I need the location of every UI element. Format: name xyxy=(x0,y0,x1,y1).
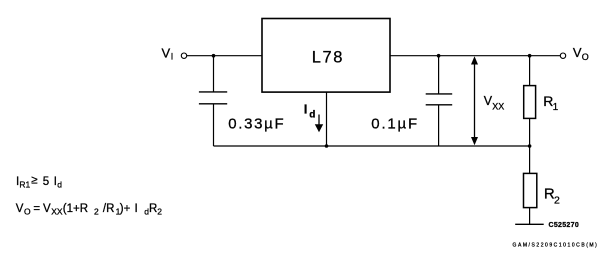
svg-text:2: 2 xyxy=(94,207,99,217)
label VXX xyxy=(484,94,505,112)
node output junction C2 xyxy=(437,54,441,58)
formula VO xyxy=(16,203,163,217)
label VO xyxy=(573,45,589,62)
terminal VI xyxy=(181,53,186,58)
svg-text:=: = xyxy=(33,203,40,215)
node bottom R junction xyxy=(528,144,532,148)
label VI xyxy=(162,45,174,61)
arrow Id xyxy=(315,115,323,133)
node input junction xyxy=(212,54,216,58)
svg-text:5: 5 xyxy=(43,176,49,188)
svg-text:R: R xyxy=(149,203,157,215)
svg-text:(1+R: (1+R xyxy=(63,203,88,215)
svg-text:/R: /R xyxy=(103,203,115,215)
capacitor C2 0.1uF xyxy=(426,56,453,146)
svg-text:V: V xyxy=(573,45,582,60)
svg-text:V: V xyxy=(16,203,24,215)
svg-text:0.1µF: 0.1µF xyxy=(371,115,419,132)
ground xyxy=(515,223,544,225)
svg-text:XX: XX xyxy=(492,102,504,112)
node R1 top junction xyxy=(528,54,532,58)
wire bottom xyxy=(214,145,530,147)
svg-text:C525270: C525270 xyxy=(549,222,580,229)
label R1 xyxy=(543,93,558,113)
wire output xyxy=(390,55,560,57)
wire regulator ground xyxy=(326,92,328,146)
svg-text:d: d xyxy=(309,109,315,120)
svg-text:0.33µF: 0.33µF xyxy=(228,115,285,132)
terminal VO xyxy=(560,53,565,58)
label R2 xyxy=(544,186,560,207)
svg-text:1: 1 xyxy=(553,102,559,113)
resistor R2 xyxy=(524,146,537,224)
svg-text:V: V xyxy=(162,45,171,60)
node bottom regulator junction xyxy=(325,144,329,148)
svg-text:O: O xyxy=(582,52,589,62)
watermark xyxy=(513,243,599,249)
svg-text:L78: L78 xyxy=(312,49,344,67)
svg-text:O: O xyxy=(24,207,31,217)
capacitor C1 0.33uF xyxy=(199,56,227,146)
regulator U1 L78 xyxy=(262,19,390,93)
svg-text:d: d xyxy=(57,179,62,189)
svg-text:XX: XX xyxy=(51,207,63,217)
arrow VXX xyxy=(471,56,478,145)
formula IR1 xyxy=(16,175,62,190)
svg-text:2: 2 xyxy=(554,194,560,206)
svg-text:V: V xyxy=(43,203,51,215)
resistor R1 xyxy=(524,56,536,146)
svg-text:≥: ≥ xyxy=(31,175,37,187)
label Id xyxy=(304,101,316,120)
svg-text:I: I xyxy=(135,203,138,215)
svg-text:I: I xyxy=(171,52,174,62)
svg-text:I: I xyxy=(304,101,308,116)
value label 0.1uF xyxy=(371,115,419,132)
svg-text:GAM/S2209C1010CB(M): GAM/S2209C1010CB(M) xyxy=(513,243,599,249)
svg-text:)+: )+ xyxy=(120,203,131,215)
svg-text:R1: R1 xyxy=(19,179,30,189)
svg-text:2: 2 xyxy=(157,207,162,217)
code C525270 xyxy=(549,222,580,229)
wire input xyxy=(187,55,262,57)
value label 0.33uF xyxy=(228,115,285,132)
